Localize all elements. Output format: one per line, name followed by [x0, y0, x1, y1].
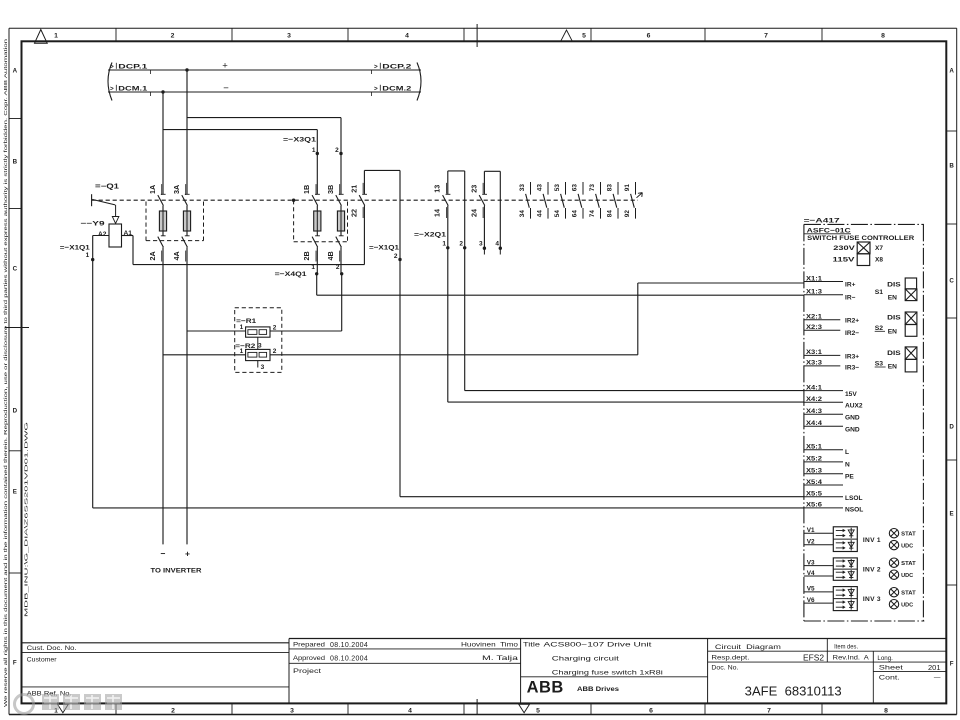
svg-text:Charging fuse switch 1xR8i: Charging fuse switch 1xR8i [552, 669, 664, 676]
svg-text:EN: EN [888, 328, 897, 335]
svg-text:EFS2: EFS2 [803, 654, 825, 663]
svg-text:IR+: IR+ [845, 282, 856, 289]
svg-text:13: 13 [433, 185, 442, 193]
svg-text:EN: EN [888, 295, 897, 302]
svg-text:7: 7 [764, 32, 768, 39]
svg-text:1: 1 [86, 252, 90, 259]
svg-text:2A: 2A [148, 251, 157, 260]
svg-text:Rev.Ind. A: Rev.Ind. A [833, 655, 870, 662]
svg-text:B: B [13, 158, 18, 165]
svg-text:GND: GND [845, 415, 860, 422]
svg-text:+: + [222, 61, 228, 72]
svg-text:=−Q1: =−Q1 [95, 184, 119, 191]
svg-text:3A: 3A [172, 185, 181, 194]
svg-text:4: 4 [495, 241, 499, 248]
svg-text:24: 24 [469, 209, 478, 217]
svg-text:A: A [949, 67, 954, 74]
svg-text:A2: A2 [98, 231, 107, 238]
svg-text:3B: 3B [326, 185, 335, 194]
svg-text:DCP.1: DCP.1 [118, 63, 148, 70]
svg-text:=−X1Q1: =−X1Q1 [369, 245, 399, 252]
svg-text:230V: 230V [833, 245, 855, 252]
svg-text:DIS: DIS [887, 315, 901, 322]
svg-text:Cust. Doc. No.: Cust. Doc. No. [27, 645, 77, 652]
svg-text:1: 1 [240, 348, 244, 355]
svg-text:43: 43 [537, 184, 544, 192]
svg-text:6: 6 [649, 707, 653, 714]
svg-text:2B: 2B [302, 251, 311, 260]
svg-text:1: 1 [442, 241, 446, 248]
svg-text:91: 91 [624, 184, 631, 192]
svg-text:>: > [374, 85, 378, 92]
svg-text:2: 2 [335, 147, 339, 154]
svg-text:53: 53 [554, 184, 561, 192]
svg-text:>: > [110, 85, 114, 92]
svg-text:3: 3 [261, 364, 265, 371]
svg-text:Title: Title [523, 643, 541, 649]
svg-text:2: 2 [171, 32, 175, 39]
svg-text:A: A [13, 67, 18, 74]
svg-text:X7: X7 [875, 245, 883, 252]
svg-text:22: 22 [349, 209, 358, 217]
svg-text:LSOL: LSOL [845, 495, 863, 502]
svg-text:3: 3 [290, 707, 294, 714]
svg-text:201: 201 [928, 663, 941, 672]
svg-text:ABB: ABB [527, 678, 564, 696]
svg-text:B: B [949, 162, 954, 169]
svg-text:=−X2Q1: =−X2Q1 [414, 232, 446, 239]
svg-text:5: 5 [536, 707, 540, 714]
svg-text:15V: 15V [845, 391, 857, 398]
svg-text:−: − [223, 83, 229, 94]
svg-text:4: 4 [408, 707, 412, 714]
svg-text:MDB_INU:\G_DIA\Z6SS201VD01.DWG: MDB_INU:\G_DIA\Z6SS201VD01.DWG [24, 421, 30, 617]
svg-text:73: 73 [589, 184, 596, 192]
svg-text:IR−: IR− [845, 295, 856, 302]
svg-text:74: 74 [589, 210, 596, 218]
svg-text:NSOL: NSOL [845, 507, 863, 514]
svg-text:ACS800−107 Drive Unit: ACS800−107 Drive Unit [544, 642, 652, 649]
svg-text:EN: EN [888, 364, 897, 371]
svg-text:1: 1 [54, 32, 58, 39]
svg-text:1A: 1A [148, 185, 157, 194]
svg-text:Charging circuit: Charging circuit [552, 656, 619, 663]
svg-text:34: 34 [519, 210, 526, 218]
svg-text:UDC: UDC [901, 573, 913, 579]
svg-text:X8: X8 [875, 257, 883, 264]
svg-text:S1: S1 [875, 289, 884, 296]
svg-text:INV 2: INV 2 [863, 567, 881, 574]
svg-text:ABB Drives: ABB Drives [577, 686, 620, 693]
svg-text:C: C [949, 277, 954, 284]
svg-text:Prepared: Prepared [293, 642, 325, 648]
svg-text:2: 2 [459, 241, 463, 248]
svg-text:F: F [950, 660, 954, 667]
svg-text:UDC: UDC [901, 603, 913, 609]
svg-text:We reserve all rights in this: We reserve all rights in this document a… [3, 38, 8, 707]
svg-text:Doc. No.: Doc. No. [711, 664, 738, 671]
svg-text:TO INVERTER: TO INVERTER [151, 568, 202, 575]
svg-text:DCP.2: DCP.2 [382, 63, 412, 70]
svg-text:84: 84 [607, 210, 614, 218]
svg-text:—: — [934, 674, 941, 681]
svg-text:Approved: Approved [293, 656, 325, 662]
svg-text:PE: PE [845, 473, 854, 480]
svg-text:=−X3Q1: =−X3Q1 [283, 136, 316, 143]
svg-text:3AFE 68310113: 3AFE 68310113 [745, 685, 842, 699]
svg-text:1: 1 [312, 147, 316, 154]
svg-text:AUX2: AUX2 [845, 403, 863, 410]
svg-text:23: 23 [469, 185, 478, 193]
svg-text:=−X4Q1: =−X4Q1 [275, 271, 307, 278]
svg-text:44: 44 [537, 210, 544, 218]
svg-text:C: C [13, 265, 18, 272]
svg-text:SWITCH FUSE CONTROLLER: SWITCH FUSE CONTROLLER [807, 235, 914, 242]
svg-text:2: 2 [336, 264, 340, 271]
svg-text:83: 83 [607, 184, 614, 192]
svg-text:STAT: STAT [901, 591, 916, 597]
svg-text:21: 21 [349, 185, 358, 193]
svg-text:08.10.2004: 08.10.2004 [330, 642, 368, 649]
svg-text:=−X1Q1: =−X1Q1 [60, 245, 90, 252]
svg-text:DIS: DIS [887, 350, 901, 357]
svg-text:4B: 4B [326, 251, 335, 260]
svg-text:−−Y9: −−Y9 [81, 220, 105, 227]
svg-text:Cont.: Cont. [879, 674, 900, 681]
svg-text:−: − [161, 549, 166, 559]
svg-text:STAT: STAT [901, 532, 916, 538]
svg-text:2: 2 [394, 253, 398, 260]
svg-text:64: 64 [572, 210, 579, 218]
svg-text:2: 2 [273, 325, 277, 332]
svg-text:IR3+: IR3+ [845, 353, 859, 360]
svg-text:IR2+: IR2+ [845, 317, 859, 324]
svg-text:E: E [950, 510, 954, 517]
svg-text:GND: GND [845, 427, 860, 434]
svg-text:3: 3 [258, 343, 262, 350]
svg-text:F: F [13, 659, 17, 666]
svg-text:D: D [949, 423, 954, 430]
svg-text:Sheet: Sheet [879, 664, 903, 671]
svg-text:DCM.2: DCM.2 [382, 85, 412, 92]
svg-text:E: E [13, 488, 17, 495]
svg-text:M. Talja: M. Talja [482, 655, 519, 662]
svg-text:N: N [845, 461, 850, 468]
svg-text:115V: 115V [833, 257, 856, 264]
svg-text:Resp.dept.: Resp.dept. [711, 655, 749, 662]
svg-text:Circuit Diagram: Circuit Diagram [715, 644, 781, 651]
svg-text:>: > [110, 63, 114, 70]
svg-text:33: 33 [519, 184, 526, 192]
svg-text:Item des.: Item des. [834, 643, 858, 650]
svg-text:1: 1 [240, 324, 244, 331]
svg-text:1B: 1B [302, 185, 311, 194]
svg-text:1: 1 [311, 264, 315, 271]
svg-text:Customer: Customer [27, 657, 57, 664]
svg-text:4A: 4A [172, 251, 181, 260]
svg-text:92: 92 [624, 210, 631, 218]
svg-text:DIS: DIS [887, 281, 901, 288]
svg-text:54: 54 [554, 210, 561, 218]
svg-text:3: 3 [287, 32, 291, 39]
svg-text:4: 4 [405, 32, 409, 39]
svg-text:INV 1: INV 1 [863, 537, 881, 544]
svg-text:2: 2 [273, 348, 277, 355]
svg-text:08.10.2004: 08.10.2004 [330, 655, 368, 662]
svg-text:+: + [185, 549, 190, 559]
svg-text:IR3−: IR3− [845, 364, 859, 371]
svg-text:Project: Project [293, 668, 321, 675]
svg-text:STAT: STAT [901, 561, 916, 567]
svg-text:63: 63 [572, 184, 579, 192]
svg-text:8: 8 [881, 32, 885, 39]
svg-text:Huovinen Timo: Huovinen Timo [461, 642, 518, 649]
svg-text:D: D [13, 407, 18, 414]
svg-text:L: L [845, 449, 849, 456]
svg-text:7: 7 [767, 707, 771, 714]
svg-text:IR2−: IR2− [845, 330, 859, 337]
svg-text:UDC: UDC [901, 543, 913, 549]
svg-text:Long.: Long. [877, 655, 893, 662]
svg-text:INV 3: INV 3 [863, 596, 881, 603]
svg-text:6: 6 [647, 32, 651, 39]
svg-text:8: 8 [884, 707, 888, 714]
svg-text:14: 14 [433, 209, 442, 217]
svg-text:DCM.1: DCM.1 [118, 85, 148, 92]
svg-text:=−A417: =−A417 [804, 217, 840, 224]
svg-text:3: 3 [479, 241, 483, 248]
svg-text:2: 2 [171, 707, 175, 714]
svg-text:>: > [374, 63, 378, 70]
svg-text:5: 5 [582, 32, 586, 39]
